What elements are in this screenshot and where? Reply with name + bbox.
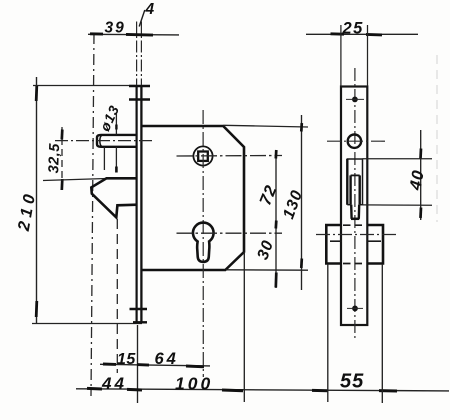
slot in faceplate (347, 159, 362, 205)
bolt lower left side (350, 205, 353, 219)
tick 64 right (186, 365, 204, 369)
svg-text:130: 130 (280, 188, 306, 222)
case block inner ledge left (330, 240, 342, 242)
wire left long extension dash-dot line x=92 (hook tip / 39 / 44 datum) (91, 33, 94, 396)
tick 44/100 shared (127, 388, 142, 392)
tick 72 top (274, 150, 277, 159)
svg-text:72: 72 (256, 182, 280, 208)
slot bottom edge left part (347, 204, 350, 206)
slot left edge bold (346, 159, 348, 205)
dimension 15/64 line y=365 (100, 364, 210, 366)
faceplate edge extension above (dashed) (136, 22, 138, 86)
case block left part (326, 225, 342, 264)
svg-text:32,5: 32,5 (46, 142, 63, 173)
tick 15/64 shared (137, 363, 149, 366)
vertical centerline right view x=354.9 (354, 68, 356, 341)
leader ϕ13 bold dash (115, 125, 117, 130)
tick 130 top (300, 123, 303, 132)
extension 25 right (367, 25, 369, 86)
svg-text:4: 4 (145, 1, 155, 18)
extension case-top y=125.5 (224, 125, 309, 127)
follower horizontal centerline (177, 155, 283, 158)
pin edge extension x=104.4 (103, 147, 105, 170)
leader ϕ13 upper (115, 114, 117, 135)
svg-text:ø13: ø13 (96, 102, 122, 133)
tick 32,5 top (60, 130, 63, 140)
plate bottom edge bold (133, 321, 147, 323)
faint fold line right (436, 55, 438, 222)
dimension 40 line x=420.7 (420, 130, 422, 220)
tick 25 left (331, 32, 345, 35)
faceplate edge view (two verticals) (136, 85, 138, 322)
leader for 4 (139, 10, 145, 27)
screw hole bottom crosshair (347, 307, 363, 309)
tick 39 left (90, 32, 103, 35)
spindle pin ø13 (97, 135, 137, 147)
tick 32,5 bottom (60, 179, 63, 190)
plate top edge bold (129, 85, 150, 88)
extension 40 bottom (363, 204, 433, 206)
screw hole top crosshair (346, 98, 364, 100)
follower hole centerline (327, 140, 385, 142)
screw hole bottom (dot) (352, 306, 358, 312)
tick 15 left (103, 363, 116, 366)
follower hole circle (348, 135, 361, 148)
case block inner ledge right (367, 240, 381, 242)
svg-text:25: 25 (342, 19, 364, 37)
svg-text:55: 55 (340, 371, 364, 393)
extension 55 left (327, 264, 329, 402)
extension case-bottom y=270 (226, 269, 308, 271)
extension plate-top y=85.5 (33, 85, 136, 87)
extension plate-bottom y=323.5 (32, 323, 142, 325)
tick 39/4 right (126, 33, 153, 37)
vertical centerline through follower and keyhole (202, 110, 204, 377)
tick 44 left (87, 387, 102, 391)
screw hole top (dot) (352, 97, 358, 103)
extension 25 left (340, 25, 342, 86)
extension case right edge x=244.3 (243, 252, 245, 402)
tick 30 bottom (274, 273, 277, 288)
svg-text:15: 15 (117, 351, 136, 368)
keyhole (cylinder profile) circle (193, 223, 214, 262)
lock case outline (141, 126, 244, 270)
keyhole horizontal centerline (177, 232, 283, 234)
svg-text:44: 44 (101, 374, 127, 393)
case block hidden bottom edge (343, 263, 366, 265)
hidden line below hook x=117.3 (116, 219, 118, 373)
bolt lower right side (358, 205, 361, 219)
pin left cap arc (100, 136, 102, 147)
dimension 32,5 line x=62 (61, 127, 63, 193)
tick 25 right (366, 33, 382, 36)
leader ϕ13 lower bold tick (115, 167, 118, 173)
screw hole tick bottom (edge view) (130, 308, 148, 311)
tick 55 left (312, 389, 328, 392)
case block hidden top edge (343, 224, 366, 226)
tick 210 top (35, 85, 38, 101)
extension 55 right (381, 264, 383, 403)
svg-text:39: 39 (105, 19, 126, 36)
follower square (198, 152, 208, 161)
svg-text:100: 100 (175, 374, 213, 394)
dimension 44/100/55 line y=390 (76, 389, 449, 391)
svg-text:30: 30 (255, 238, 278, 262)
dimension line top y=34.5 (88, 33, 179, 36)
bolt bottom edge (351, 218, 359, 221)
tick 130 bottom (300, 259, 303, 269)
dimension 72/30 line x=276 (275, 152, 277, 288)
bolt left side bold (349, 175, 351, 204)
case block right part (367, 225, 383, 264)
bolt right side bold (359, 175, 361, 204)
tick 100 right (222, 389, 243, 393)
tick 210 bottom (35, 301, 38, 317)
hook bolt front face (351, 174, 360, 176)
screw hole tick top (edge view) (129, 98, 150, 101)
faceplate front view outline (341, 87, 367, 326)
extension hook-top to 32,5 (43, 179, 107, 181)
dimension 130 line x=301.5 (301, 115, 303, 290)
tick 72/30 middle (274, 221, 277, 229)
tick 40 top (419, 149, 422, 159)
pin centerline (55, 140, 152, 142)
dimension 25 line y=34.3 (306, 33, 418, 35)
follower (square hub) outer circle (193, 146, 212, 165)
tick 40 bottom (419, 208, 422, 219)
slot bottom edge right part (360, 204, 363, 206)
dimension 210 line (36, 77, 38, 323)
extension 40 top (363, 158, 433, 160)
case block horizontal centerline (316, 234, 397, 236)
svg-text:40: 40 (406, 168, 427, 192)
tick 55 right (379, 389, 397, 392)
svg-text:64: 64 (155, 350, 179, 368)
leader ϕ13 lower (115, 147, 117, 172)
extension below plate x=137.5 (137, 325, 139, 403)
hook bolt (side view) (91, 178, 137, 217)
